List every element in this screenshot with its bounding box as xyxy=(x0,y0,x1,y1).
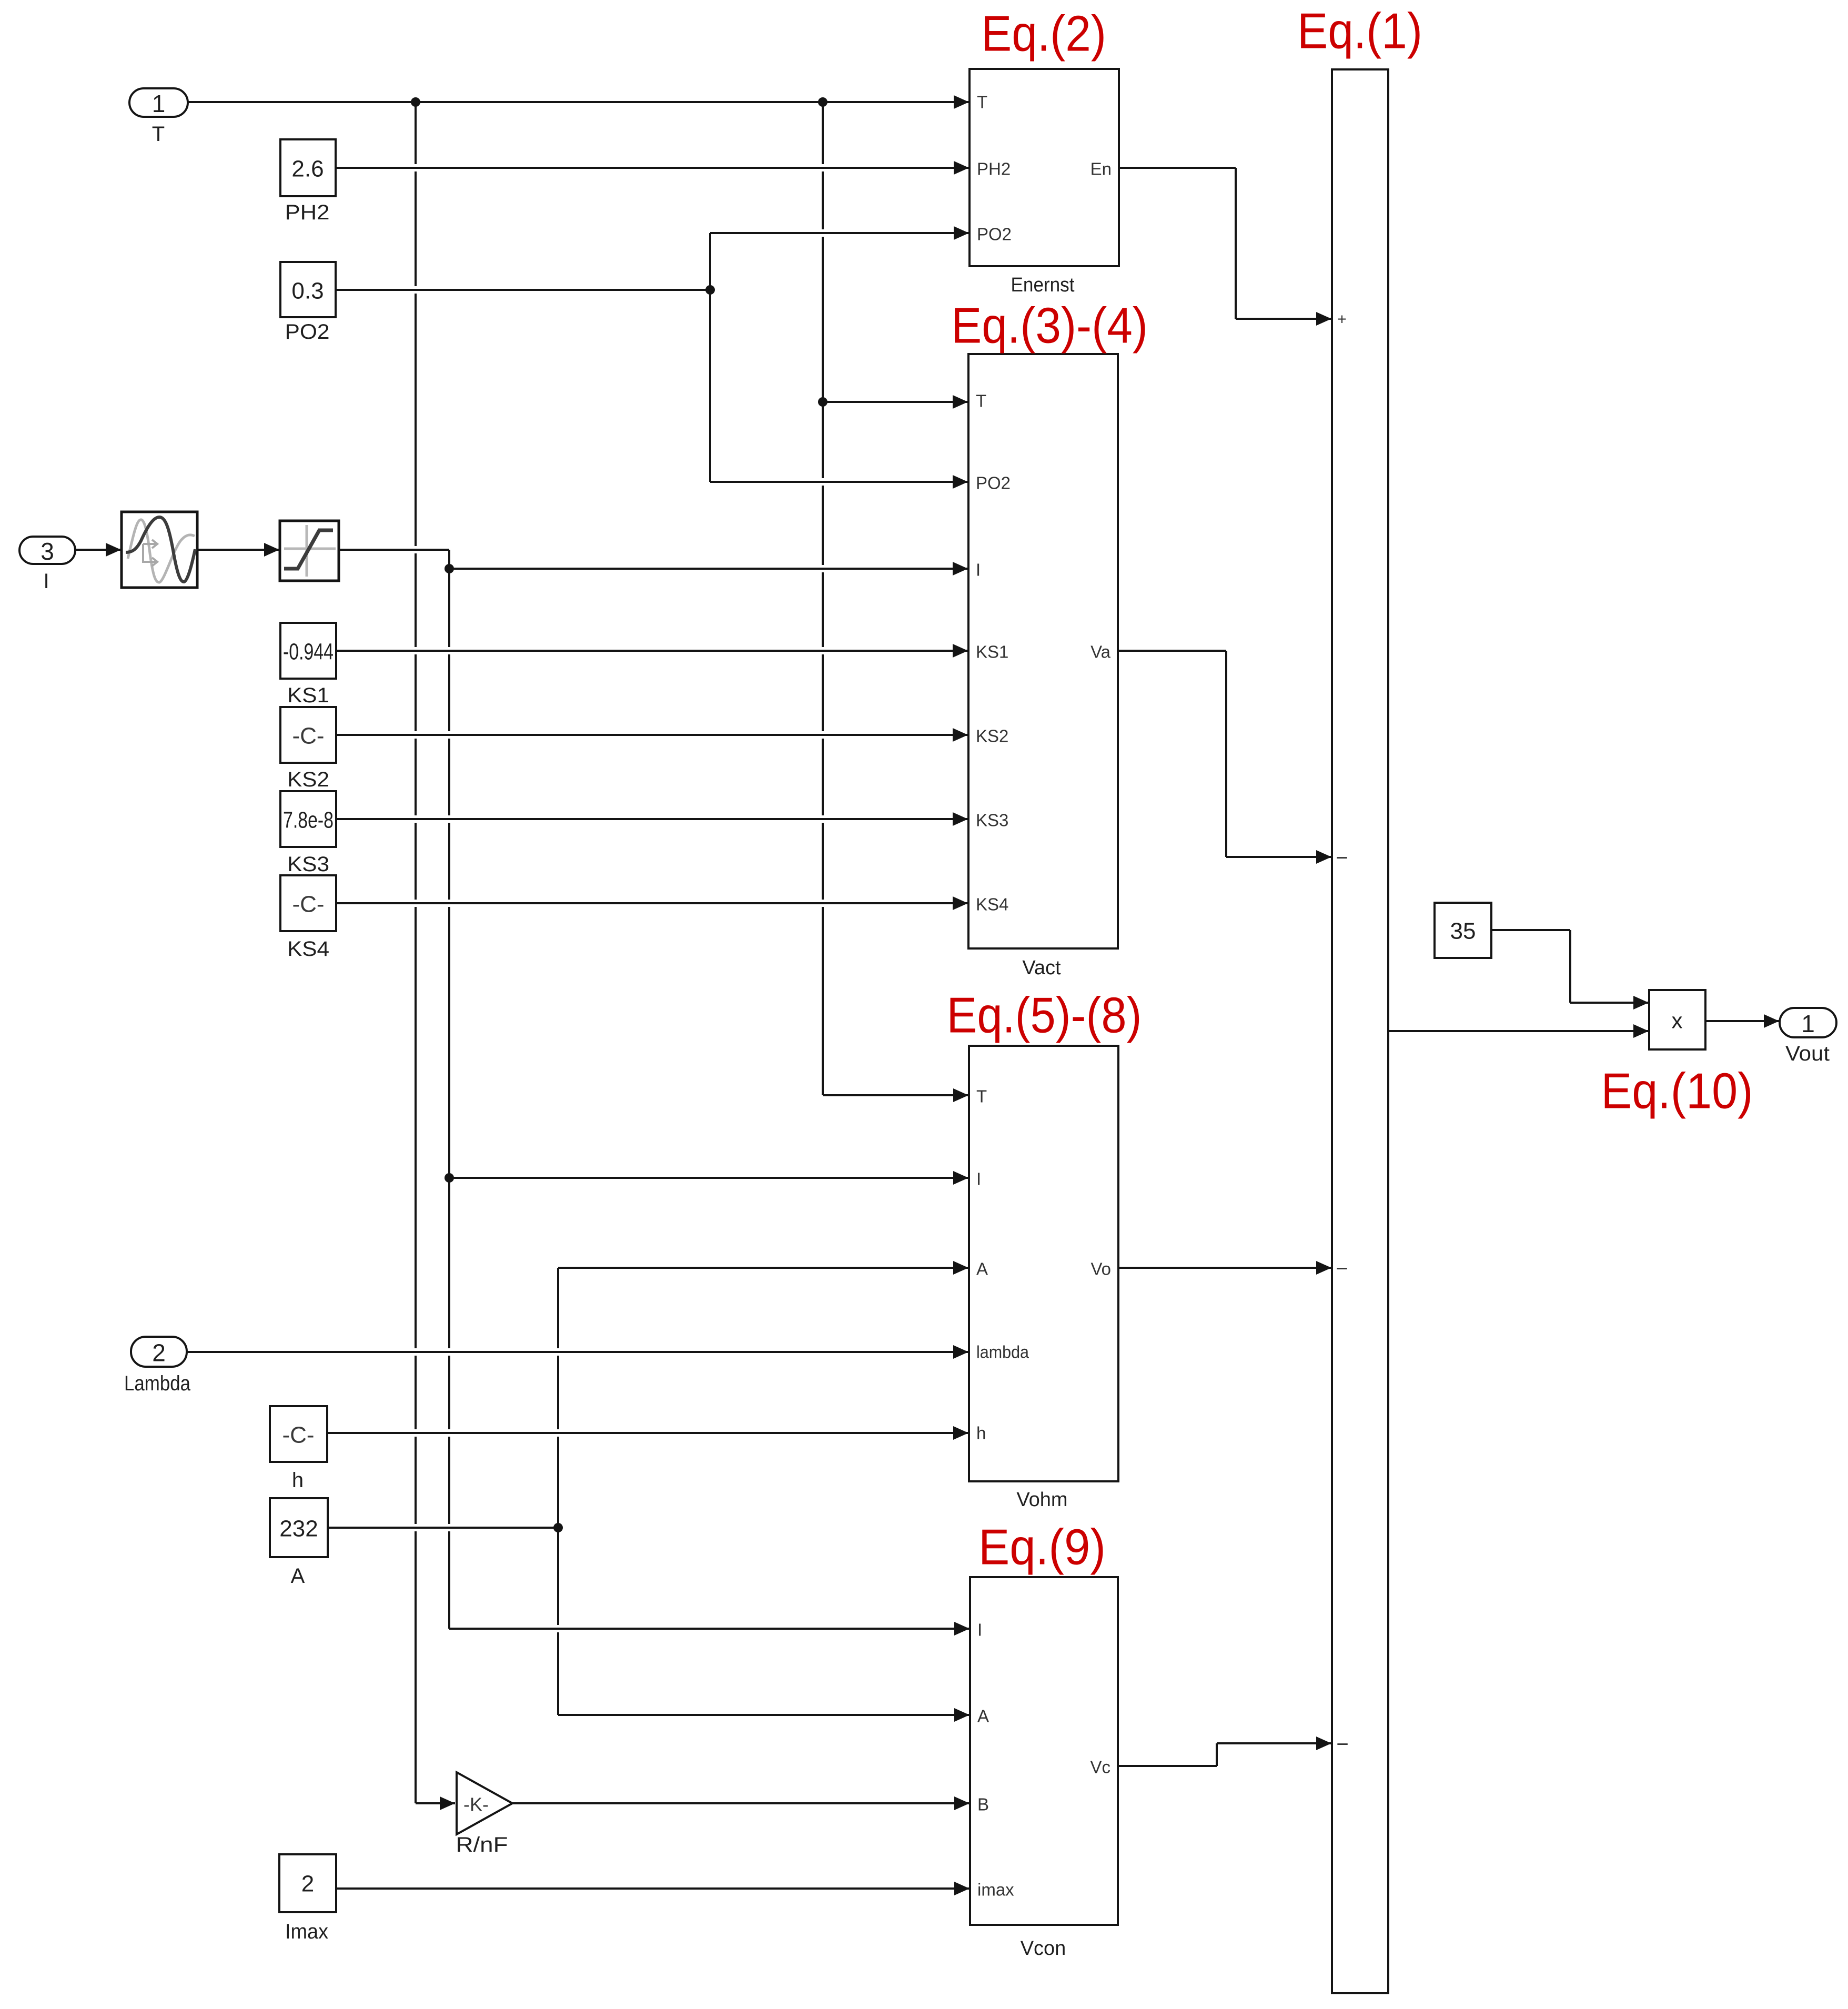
outport 1 (Vout) xyxy=(1780,1008,1836,1037)
svg-text:PH2: PH2 xyxy=(285,201,330,224)
svg-text:R/nF: R/nF xyxy=(456,1833,508,1856)
svg-text:−: − xyxy=(1336,846,1348,870)
constant A (232) xyxy=(270,1498,328,1557)
svg-text:Vohm: Vohm xyxy=(1016,1489,1067,1511)
svg-text:PO2: PO2 xyxy=(285,320,330,344)
wire Vc vertical jog xyxy=(1216,1743,1218,1766)
svg-text:Eq.(3)-(4): Eq.(3)-(4) xyxy=(951,298,1148,354)
svg-text:h: h xyxy=(292,1469,304,1492)
svg-text:−: − xyxy=(1336,1733,1348,1756)
wire PO2 constant to junction xyxy=(336,289,710,291)
wire PO2 to Vact PO2 xyxy=(710,481,968,483)
wire h constant to Vohm h xyxy=(327,1432,968,1434)
constant 35 xyxy=(1435,903,1491,958)
inport 2 (Lambda) xyxy=(131,1337,187,1367)
svg-text:-C-: -C- xyxy=(292,723,324,749)
junction node PO2 xyxy=(705,285,715,295)
svg-text:Eq.(10): Eq.(10) xyxy=(1601,1063,1753,1119)
signal source block (current profile) xyxy=(122,512,197,588)
wire T trunk vertical (to gain R/nF) xyxy=(415,102,417,1803)
junction node T / gain trunk xyxy=(411,97,420,107)
constant h (-C-) xyxy=(270,1406,327,1462)
wire A to Vohm A xyxy=(558,1267,968,1269)
svg-text:232: 232 xyxy=(279,1516,318,1542)
wire T to gain R/nF input xyxy=(416,1802,455,1804)
constant KS3 (7.8e-8) xyxy=(280,791,336,847)
wire sum output to product xyxy=(1388,1030,1649,1032)
wire T to Vact T xyxy=(823,401,968,403)
svg-text:2: 2 xyxy=(301,1871,314,1897)
svg-text:I: I xyxy=(976,560,981,580)
constant KS2 (-C-) xyxy=(280,707,336,763)
constant Imax (2) xyxy=(279,1854,336,1912)
junction node I / Vact branch xyxy=(445,564,454,573)
wire 35 constant output xyxy=(1491,929,1570,931)
wire Vc into sum (-) xyxy=(1217,1742,1331,1744)
svg-text:−: − xyxy=(1336,1257,1348,1280)
wire Va into sum (-) xyxy=(1226,856,1331,858)
wire T to Vohm T xyxy=(823,1094,968,1096)
svg-text:KS2: KS2 xyxy=(976,726,1008,746)
wire signal block to saturation xyxy=(197,549,279,551)
svg-text:T: T xyxy=(976,391,986,411)
svg-text:I: I xyxy=(43,570,49,593)
svg-text:T: T xyxy=(977,93,987,112)
wire PO2 to Enernst PO2 xyxy=(710,232,969,234)
wire Lambda inport to Vohm lambda xyxy=(187,1351,968,1353)
svg-text:Lambda: Lambda xyxy=(124,1372,191,1395)
svg-text:PO2: PO2 xyxy=(977,225,1012,244)
svg-text:7.8e-8: 7.8e-8 xyxy=(283,807,334,833)
svg-text:Eq.(5)-(8): Eq.(5)-(8) xyxy=(947,987,1142,1044)
svg-text:KS3: KS3 xyxy=(287,853,329,876)
svg-text:3: 3 xyxy=(41,538,54,565)
wire KS4 to Vact KS4 xyxy=(336,902,968,904)
wire Imax to Vcon imax xyxy=(337,1887,970,1890)
wire Vo: Vohm output into sum (-) xyxy=(1118,1267,1331,1269)
wire I to Vohm I xyxy=(449,1177,968,1179)
wire A constant to junction xyxy=(328,1527,558,1529)
wire I to Vcon I xyxy=(449,1628,970,1630)
svg-text:A: A xyxy=(976,1259,988,1279)
svg-text:35: 35 xyxy=(1450,918,1476,944)
svg-text:KS4: KS4 xyxy=(976,895,1008,914)
svg-text:0.3: 0.3 xyxy=(291,278,324,304)
junction node A xyxy=(553,1523,563,1532)
junction node I / Vohm branch xyxy=(445,1173,454,1183)
svg-text:KS2: KS2 xyxy=(287,768,329,791)
svg-text:imax: imax xyxy=(977,1880,1014,1900)
wire gain R/nF to Vcon B xyxy=(512,1802,970,1804)
constant KS4 (-C-) xyxy=(280,875,336,931)
wire 35 into product xyxy=(1570,1002,1649,1004)
wire T: inport 1 to Enernst T xyxy=(188,101,969,103)
svg-text:A: A xyxy=(291,1564,305,1588)
wire En: Enernst output xyxy=(1119,167,1236,169)
junction node T / Vact branch xyxy=(818,397,827,407)
junction node T / subsystem branch xyxy=(818,97,827,107)
wire KS3 to Vact KS3 xyxy=(336,818,968,820)
wire PH2 constant to Enernst PH2 xyxy=(336,167,969,169)
svg-text:2.6: 2.6 xyxy=(291,156,324,182)
svg-text:-C-: -C- xyxy=(282,1422,314,1448)
subsystem Vcon xyxy=(970,1577,1118,1925)
product block (x) xyxy=(1649,990,1705,1049)
subsystem Enernst xyxy=(970,69,1119,266)
wire Va vertical segment xyxy=(1225,651,1227,857)
svg-text:I: I xyxy=(976,1169,981,1189)
svg-text:Enernst: Enernst xyxy=(1011,274,1075,296)
svg-text:KS4: KS4 xyxy=(287,937,329,961)
svg-text:I: I xyxy=(977,1620,982,1640)
svg-text:T: T xyxy=(152,123,165,146)
wire 35 vertical segment xyxy=(1569,930,1571,1003)
wire Vc: Vcon output xyxy=(1118,1765,1217,1767)
sum block Eq.(1) xyxy=(1332,69,1388,1993)
svg-text:-0.944: -0.944 xyxy=(283,639,334,665)
wire En vertical segment xyxy=(1235,168,1237,319)
svg-text:Eq.(9): Eq.(9) xyxy=(978,1519,1106,1576)
svg-text:-K-: -K- xyxy=(463,1794,489,1815)
saturation block xyxy=(280,521,339,581)
wire inport 3 to signal block xyxy=(75,549,121,551)
svg-text:h: h xyxy=(976,1424,986,1443)
gain R/nF (-K-) xyxy=(457,1772,512,1834)
svg-text:A: A xyxy=(977,1707,989,1726)
inport 1 (T) xyxy=(129,88,188,117)
wire crossing gaps xyxy=(413,164,418,171)
svg-text:2: 2 xyxy=(152,1339,166,1367)
svg-text:KS1: KS1 xyxy=(287,684,329,707)
svg-text:1: 1 xyxy=(152,90,166,117)
svg-text:lambda: lambda xyxy=(976,1342,1029,1362)
svg-text:x: x xyxy=(1672,1008,1683,1033)
svg-text:KS1: KS1 xyxy=(976,642,1008,662)
svg-text:Eq.(2): Eq.(2) xyxy=(981,6,1106,62)
wire PO2 branch vertical xyxy=(709,233,711,482)
svg-text:B: B xyxy=(977,1795,989,1814)
wire Va: Vact output xyxy=(1118,650,1226,652)
svg-text:Va: Va xyxy=(1090,642,1111,662)
svg-text:Vo: Vo xyxy=(1090,1259,1111,1279)
svg-text:Eq.(1): Eq.(1) xyxy=(1297,3,1422,59)
constant PO2 (0.3) xyxy=(280,262,336,317)
svg-text:Vc: Vc xyxy=(1090,1758,1110,1777)
wire KS2 to Vact KS2 xyxy=(336,734,968,736)
svg-text:T: T xyxy=(976,1087,987,1106)
svg-text:Vcon: Vcon xyxy=(1021,1937,1066,1960)
constant KS1 (-0.944) xyxy=(280,623,336,679)
inport 3 (I) xyxy=(19,537,75,564)
svg-text:PH2: PH2 xyxy=(977,159,1011,179)
wire I trunk vertical (saturation output) xyxy=(448,550,450,1629)
svg-text:+: + xyxy=(1337,311,1347,328)
svg-text:-C-: -C- xyxy=(292,892,324,917)
svg-text:Vout: Vout xyxy=(1785,1042,1830,1065)
constant PH2 (2.6) xyxy=(280,139,336,196)
subsystem Vohm xyxy=(969,1046,1118,1481)
svg-text:En: En xyxy=(1090,159,1112,179)
svg-text:Imax: Imax xyxy=(285,1920,328,1943)
svg-text:KS3: KS3 xyxy=(976,811,1008,830)
subsystem Vact xyxy=(968,354,1118,948)
wire En into sum (+) xyxy=(1236,318,1331,320)
wire A to Vcon A xyxy=(558,1714,970,1716)
wire KS1 to Vact KS1 xyxy=(336,650,968,652)
wire A branch vertical xyxy=(557,1268,559,1715)
wire I to Vact I xyxy=(449,568,968,570)
svg-text:1: 1 xyxy=(1801,1010,1815,1037)
wire T branch vertical (to Vact/Vohm) xyxy=(822,102,824,1095)
wire saturation output to I trunk xyxy=(339,549,449,551)
svg-text:Vact: Vact xyxy=(1022,957,1061,979)
wire product output to outport Vout xyxy=(1705,1020,1779,1022)
svg-text:PO2: PO2 xyxy=(976,473,1011,493)
